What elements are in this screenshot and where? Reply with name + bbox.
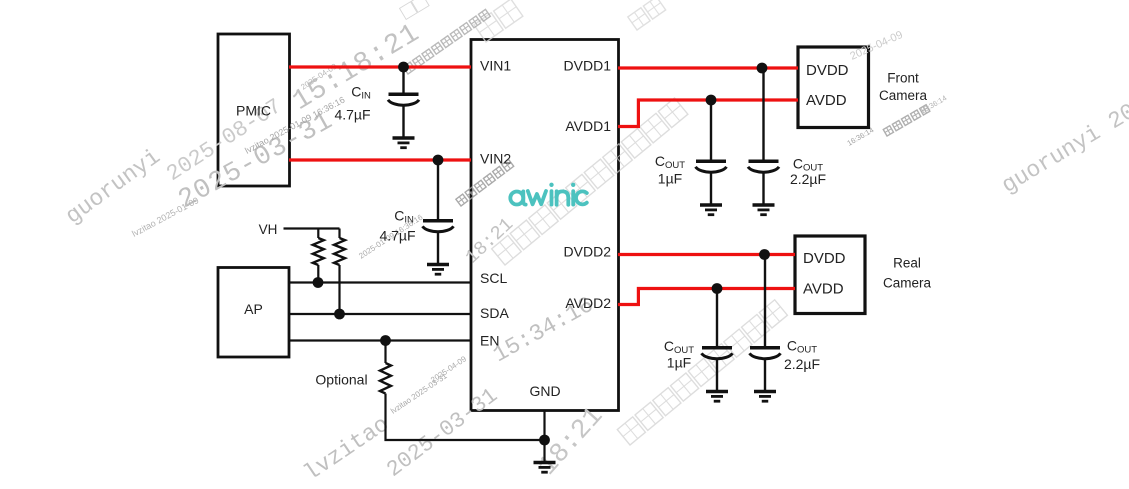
svg-text:Real: Real [893, 256, 921, 271]
svg-text:Camera: Camera [883, 276, 932, 291]
svg-text:VIN2: VIN2 [480, 151, 511, 167]
svg-text:2.2µF: 2.2µF [790, 171, 826, 187]
svg-text:4.7µF: 4.7µF [334, 107, 370, 123]
svg-text:Front: Front [887, 71, 919, 86]
svg-text:VIN1: VIN1 [480, 58, 511, 74]
svg-text:4.7µF: 4.7µF [379, 228, 415, 244]
svg-text:1µF: 1µF [658, 171, 682, 187]
svg-text:2.2µF: 2.2µF [784, 356, 820, 372]
svg-text:AVDD2: AVDD2 [565, 295, 611, 311]
svg-text:GND: GND [529, 383, 560, 399]
svg-text:AP: AP [244, 301, 263, 317]
svg-text:VH: VH [259, 222, 278, 237]
svg-text:Optional: Optional [315, 372, 367, 388]
svg-text:SCL: SCL [480, 270, 507, 286]
svg-text:PMIC: PMIC [236, 103, 271, 119]
svg-text:AVDD1: AVDD1 [565, 118, 611, 134]
svg-text:EN: EN [480, 333, 499, 349]
svg-text:Camera: Camera [879, 88, 928, 103]
svg-text:SDA: SDA [480, 305, 509, 321]
svg-text:DVDD1: DVDD1 [564, 58, 612, 74]
svg-text:DVDD2: DVDD2 [564, 244, 612, 260]
svg-text:AVDD: AVDD [806, 92, 847, 109]
svg-text:DVDD: DVDD [806, 62, 849, 79]
svg-text:1µF: 1µF [667, 355, 691, 371]
svg-text:AVDD: AVDD [803, 281, 844, 298]
svg-text:DVDD: DVDD [803, 250, 846, 267]
